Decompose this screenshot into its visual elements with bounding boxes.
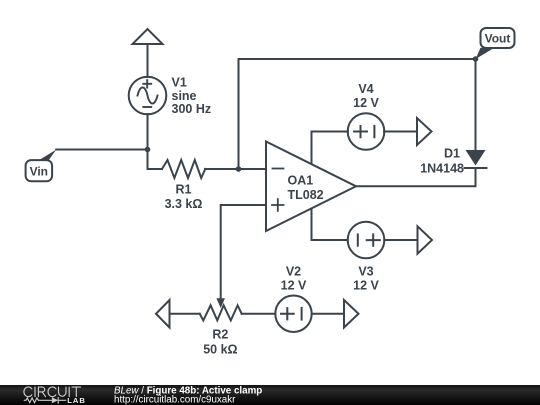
svg-text:R2: R2 (212, 327, 228, 341)
label R1 (165, 183, 203, 212)
diode D1 (465, 150, 487, 186)
wire V2 to rail (312, 313, 344, 315)
svg-text:OA1: OA1 (288, 174, 314, 188)
node feedback junction (236, 166, 242, 172)
svg-text:50 kΩ: 50 kΩ (203, 343, 237, 357)
wire op-amp plus input to R2 wiper (221, 205, 266, 299)
svg-text:sine: sine (172, 89, 197, 103)
label OA1 (288, 174, 324, 203)
wire R1 to op-amp minus input (205, 168, 266, 170)
resistor R1 (162, 160, 205, 178)
svg-text:V2: V2 (286, 265, 301, 279)
label V2 (281, 265, 307, 293)
wire Vin to junction (56, 149, 147, 151)
node Vout junction (473, 56, 479, 62)
svg-text:http://circuitlab.com/c9uxakr: http://circuitlab.com/c9uxakr (114, 394, 236, 405)
node junction V1/Vin (145, 147, 151, 153)
svg-text:1N4148: 1N4148 (420, 162, 464, 176)
op-amp minus symbol (273, 168, 284, 170)
label Vin (30, 164, 48, 178)
power rail terminal (right triangle) at V3 (418, 226, 433, 253)
node Vin flag (26, 150, 57, 182)
label V4 (353, 82, 379, 110)
label V3 (353, 265, 379, 293)
node Vout flag (476, 28, 515, 59)
voltage source V3 (348, 222, 385, 259)
wire op-amp V- to V3 (312, 209, 348, 241)
footer bar (0, 385, 540, 405)
svg-text:12 V: 12 V (281, 279, 307, 293)
svg-text:R1: R1 (176, 183, 192, 197)
svg-text:Vout: Vout (485, 32, 511, 46)
power rail terminal (left triangle) at R2 (156, 300, 170, 328)
wire V1 top (147, 44, 149, 77)
label Vout (485, 32, 511, 46)
op-amp OA1 (266, 142, 356, 232)
wire V1 bottom (147, 114, 149, 150)
svg-text:V4: V4 (358, 82, 373, 96)
wire V4 to rail (384, 131, 417, 133)
svg-text:D1: D1 (444, 146, 460, 160)
potentiometer R2 (200, 305, 242, 320)
svg-text:Vin: Vin (30, 164, 48, 178)
svg-text:TL082: TL082 (288, 188, 324, 202)
voltage source V1 (129, 77, 167, 115)
wire junction down to R1 (148, 150, 163, 170)
label V1 value (172, 76, 212, 116)
label D1 (420, 146, 464, 175)
power rail terminal (right triangle) at V2 (344, 300, 359, 328)
wire rail to R2 (170, 313, 200, 315)
svg-text:V1: V1 (172, 76, 187, 90)
power flag (up triangle) at V1 top (133, 29, 163, 44)
voltage source V4 (348, 113, 385, 150)
op-amp plus symbol (272, 199, 284, 211)
voltage source V2 (275, 296, 311, 332)
wire feedback up and across to Vout (239, 59, 476, 169)
wire Vout to diode D1 (475, 59, 477, 150)
wire V3 to rail (384, 239, 417, 241)
svg-text:3.3 kΩ: 3.3 kΩ (165, 197, 203, 211)
power rail terminal (right triangle) at V4 (417, 118, 432, 145)
wire op-amp output (356, 185, 476, 187)
R2 wiper arrowhead (216, 298, 225, 308)
wire R2 to V2 (242, 313, 276, 315)
wire op-amp V+ to V4 (312, 132, 349, 165)
CircuitLab logo wordmark (24, 387, 86, 405)
svg-text:LAB: LAB (67, 396, 86, 405)
svg-text:300 Hz: 300 Hz (172, 102, 212, 116)
label R2 (203, 327, 237, 356)
svg-text:V3: V3 (358, 265, 373, 279)
svg-text:12 V: 12 V (353, 279, 379, 293)
svg-text:12 V: 12 V (353, 96, 379, 110)
